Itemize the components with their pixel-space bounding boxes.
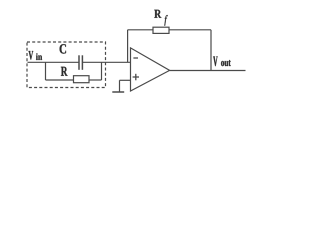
label C [60, 44, 66, 53]
node A vertical [45, 62, 47, 80]
wire top to feedback resistor Rf [128, 29, 153, 31]
capacitor C [78, 55, 80, 70]
wire Rf to output node [169, 29, 211, 31]
label Rf [154, 10, 161, 18]
resistor Rf [153, 27, 169, 33]
wire node B to op-amp inverting input [102, 61, 131, 63]
wire feedback right vertical [210, 30, 212, 71]
dashed box (RC network enclosure) [27, 42, 106, 88]
node B vertical [101, 62, 103, 80]
label Vin [29, 51, 34, 60]
wire noninverting input to ground [120, 79, 131, 81]
wire node A to capacitor C [46, 61, 80, 63]
wire output to Vout [170, 70, 246, 72]
label R [61, 67, 68, 76]
op-amp noninverting pin mark [133, 76, 139, 78]
op-amp U1 [131, 48, 170, 91]
op-amp inverting pin mark [133, 57, 138, 59]
wire Vin to node A [28, 61, 46, 63]
wire feedback left vertical [127, 30, 129, 63]
ground [112, 91, 124, 93]
label Vout [213, 57, 217, 67]
wire node A to resistor R [46, 79, 74, 81]
wire resistor R to node B [89, 79, 102, 81]
resistor R [74, 76, 90, 83]
wire capacitor to node B [82, 61, 101, 63]
